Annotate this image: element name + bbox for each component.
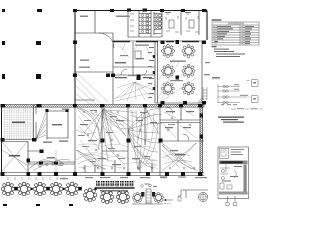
corridor wire fan — [36, 112, 46, 139]
room labels busy — [115, 62, 126, 63]
branch 3 — [218, 96, 246, 98]
dining label text — [170, 61, 186, 62]
lobby diagonal wires — [76, 74, 108, 104]
dance floor right wall second line — [35, 107, 37, 140]
mid room — [47, 111, 68, 138]
dining left wall — [155, 41, 158, 103]
dining faint wires — [158, 58, 196, 101]
wall x160 — [159, 107, 161, 176]
lower plan columns — [1, 104, 204, 176]
scattered labels lower plan — [62, 109, 178, 166]
title characters — [96, 181, 133, 186]
marks above counter — [141, 185, 144, 188]
vertical fan strip x128-160 — [132, 110, 158, 170]
stair room walls — [128, 11, 162, 38]
right room labels — [166, 111, 175, 112]
wire arcs mid-left — [28, 158, 70, 171]
extra texture bottom band — [78, 144, 158, 170]
right outer wall hatch fill — [200, 107, 203, 173]
room A walls — [2, 142, 29, 177]
notes under table — [212, 46, 246, 57]
wall left — [74, 11, 76, 107]
counter dark units — [141, 192, 144, 197]
wall y151 mid — [102, 150, 128, 152]
small device circles lower plan — [83, 111, 195, 169]
dance floor walls — [2, 105, 34, 142]
wall x75 — [74, 107, 76, 176]
terrace columns — [14, 187, 97, 191]
busy room divider — [113, 66, 155, 68]
room A label — [9, 155, 20, 157]
wall symbols dining left — [153, 55, 155, 58]
dining right wall — [201, 41, 203, 103]
wall right outer — [206, 11, 208, 41]
grid bubble marks bottom — [3, 204, 73, 206]
detail bottom band — [219, 192, 248, 195]
right rooms walls — [160, 104, 204, 141]
title underline — [95, 187, 135, 188]
column — [2, 41, 5, 45]
ktv table 1 — [169, 20, 174, 28]
door arc sub-room 1 — [121, 69, 127, 75]
big room X diagonals — [162, 143, 197, 171]
device symbols mid-left — [46, 163, 48, 165]
branch 4 — [218, 102, 240, 104]
ktv partition 1 — [180, 11, 182, 36]
wall x102 — [101, 107, 103, 176]
dance floor hatch — [3, 108, 33, 140]
sub box texts — [231, 149, 244, 155]
wire fans lower plan — [76, 108, 196, 169]
counter center cabinet — [146, 189, 151, 203]
room bed rect 1 — [135, 51, 141, 59]
wall y72 — [75, 71, 113, 73]
left outer wall — [1, 105, 3, 176]
booth stubs bottom — [85, 160, 152, 173]
mid room label — [52, 124, 62, 125]
room labels upper — [80, 16, 88, 18]
counter baseline — [132, 203, 163, 205]
counter table left — [132, 192, 142, 202]
wall top — [75, 10, 207, 12]
door arc right room 2 — [183, 134, 189, 140]
dance floor label — [12, 122, 25, 124]
mid-left room texts — [43, 142, 52, 143]
branch 2 — [218, 90, 240, 92]
room partition x133 — [132, 42, 134, 75]
big arc room 75-102 — [77, 108, 100, 144]
right outer wall — [200, 107, 203, 173]
detail labels — [222, 166, 242, 182]
detail room — [244, 165, 247, 192]
ktv seats 1 — [166, 14, 179, 32]
wall x145 — [144, 107, 146, 145]
dining tables — [161, 44, 174, 57]
columns mid room top — [46, 109, 49, 112]
column y150 — [40, 150, 44, 154]
door arc right room 1 — [166, 107, 173, 114]
sub box with symbol — [220, 148, 229, 158]
wall x113 vertical — [112, 33, 114, 104]
room A diagonals — [2, 142, 27, 171]
corridor wall x47 — [46, 111, 48, 140]
dashed line x111 — [110, 108, 112, 150]
wall y75 — [113, 74, 155, 76]
top wall with hatch — [1, 105, 204, 108]
corridor wall y38 — [113, 40, 204, 42]
wall y162 — [28, 162, 75, 164]
ktv seats 2 — [186, 14, 199, 32]
bottom wall — [2, 173, 205, 176]
upper plan columns — [73, 9, 207, 105]
column — [37, 9, 42, 12]
toilet fixtures — [130, 14, 161, 33]
wall horizontal y33 — [75, 32, 113, 34]
dining top wall thick segments — [113, 41, 199, 43]
detail bubble stamp — [198, 192, 207, 201]
stairs symbol right — [203, 87, 207, 100]
wall partition vertical — [94, 11, 96, 34]
title subtext — [100, 190, 128, 192]
column — [2, 9, 5, 12]
small symbol line-dot — [163, 199, 173, 201]
wires busy room — [114, 44, 153, 101]
wall x128 — [127, 107, 129, 176]
dash-dot right of counter — [164, 203, 171, 205]
door arc lobby — [99, 33, 114, 48]
door arc sub-room 2 — [142, 70, 147, 75]
annotation right of dining — [204, 74, 210, 75]
riser title — [212, 77, 220, 78]
toilet block walls — [128, 11, 151, 38]
table number dots — [214, 26, 243, 44]
riser labels — [221, 82, 256, 105]
legend lines bottom of riser — [231, 108, 263, 110]
columns y139 — [101, 139, 105, 143]
column — [36, 74, 41, 79]
riser bus — [217, 84, 219, 103]
detail title band — [219, 161, 248, 165]
ktv partition 2 — [198, 11, 200, 36]
symbols below bottom wall — [8, 177, 64, 180]
dining bottom wall — [155, 102, 204, 104]
ktv table 2 — [189, 20, 194, 28]
table title text — [212, 19, 222, 21]
lobby bottom wall — [75, 99, 95, 101]
column — [2, 74, 5, 79]
column — [36, 41, 41, 45]
fan from x102 top — [102, 110, 136, 162]
text marks column x150 — [148, 47, 154, 98]
counter table right — [153, 192, 163, 202]
dashed line x56 — [55, 150, 57, 172]
grid bubbles below detail — [228, 196, 236, 202]
riser boxes — [252, 80, 259, 87]
table cell text — [214, 26, 254, 44]
column on wall y75 — [137, 75, 141, 81]
table title cell grey — [228, 22, 244, 24]
wall y151 — [28, 150, 44, 152]
branch 1 — [218, 86, 240, 88]
wire texture lower plan extra — [76, 108, 196, 170]
hatch corner dining — [198, 97, 203, 103]
tiny texts above bracket — [160, 177, 167, 178]
